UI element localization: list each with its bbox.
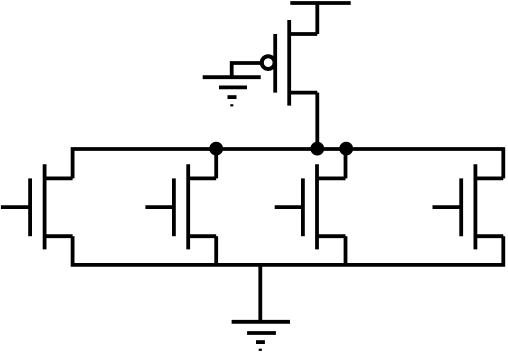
wire: M5 drain to output node	[315, 93, 319, 149]
nmos transistor M2	[145, 164, 216, 249]
wire: M2 drain to top rail	[214, 149, 218, 178]
junction dot A	[209, 142, 223, 156]
ground GND1 (gate of M5)	[203, 77, 261, 105]
junction dot B	[310, 142, 324, 156]
wire: VDD rail to M5 source	[315, 3, 319, 34]
wire: bottom rail to ground	[258, 265, 262, 322]
nmos transistor M4	[433, 164, 504, 249]
nmos transistor M3	[275, 164, 346, 249]
power rail VDD	[290, 1, 350, 5]
top rail (output node)	[73, 149, 504, 178]
wire: M3 source to bottom rail	[344, 236, 348, 265]
nmos transistor M1	[1, 164, 73, 249]
wire: M2 source to bottom rail	[214, 236, 218, 265]
pmos transistor M5	[262, 20, 317, 106]
junction dot C	[339, 142, 353, 156]
ground GND2 (bottom)	[232, 322, 290, 350]
wire: M3 drain to top rail	[344, 149, 348, 178]
bottom rail (source net)	[73, 236, 504, 265]
wire: M5 gate to ground	[232, 63, 261, 77]
